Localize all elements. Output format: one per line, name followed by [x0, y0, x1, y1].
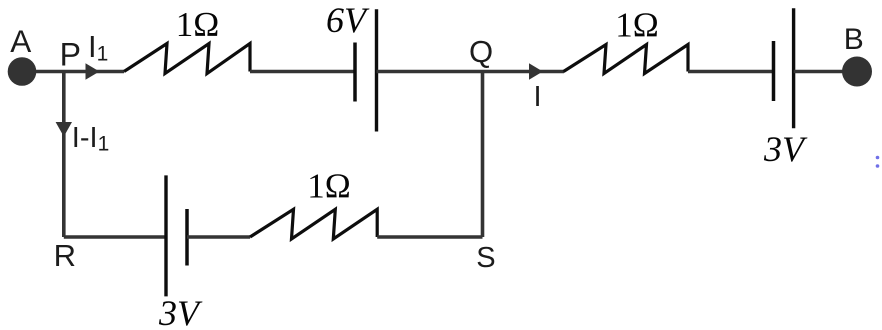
svg-text:R: R — [54, 238, 76, 273]
svg-text:A: A — [10, 23, 31, 59]
resistor R2 1ohm (top right) — [564, 45, 689, 74]
battery 3V right positive plate (long) — [792, 8, 795, 128]
stray blue dot upper (right edge artifact) — [876, 156, 880, 160]
wire battery 3V bottom to resistor R3 — [187, 235, 250, 239]
battery 6V negative plate (short) — [353, 43, 357, 102]
wire R3 to node S — [377, 235, 482, 239]
current arrow I on wire Q to R2 — [529, 63, 543, 79]
wire battery 6V to node Q — [377, 70, 483, 74]
node A terminal dot — [8, 57, 37, 86]
node B terminal dot — [842, 57, 872, 87]
resistor R3 1ohm (bottom) — [250, 209, 377, 239]
wire A to resistor R1 (top left horizontal) — [24, 70, 124, 74]
svg-text:1Ω: 1Ω — [176, 5, 220, 44]
wire battery 3V right to node B — [794, 70, 846, 74]
battery 3V bottom positive plate (long) — [164, 175, 167, 296]
svg-text:B: B — [844, 23, 864, 56]
svg-text:1Ω: 1Ω — [307, 166, 351, 205]
svg-text:I-I1: I-I1 — [72, 122, 109, 155]
svg-text:I1: I1 — [88, 29, 108, 65]
battery 3V right negative plate (short) — [772, 41, 776, 101]
battery 3V bottom negative plate (short) — [185, 209, 189, 266]
wire node Q to resistor R2 — [483, 70, 565, 74]
resistor R1 1ohm (top left) — [124, 44, 250, 74]
wire R1 to battery 6V — [250, 70, 354, 74]
svg-text:P: P — [60, 37, 81, 73]
svg-text:6V: 6V — [326, 0, 370, 40]
svg-text:3V: 3V — [158, 293, 203, 330]
svg-text:3V: 3V — [763, 129, 808, 169]
current arrow I1 on top wire — [86, 63, 100, 79]
svg-text:I: I — [534, 81, 542, 113]
svg-text:S: S — [476, 242, 495, 274]
current arrow I-I1 (downward) — [56, 122, 72, 137]
wire P to R (left vertical branch) — [62, 72, 66, 238]
wire R2 to battery 3V right — [688, 70, 773, 74]
stray blue dot lower (right edge artifact) — [876, 164, 880, 168]
svg-text:Q: Q — [469, 34, 493, 69]
wire R to battery 3V bottom — [64, 235, 166, 239]
wire S to Q (right vertical branch) — [481, 72, 485, 238]
battery 6V positive plate (long) — [375, 9, 378, 131]
svg-text:1Ω: 1Ω — [615, 6, 659, 45]
